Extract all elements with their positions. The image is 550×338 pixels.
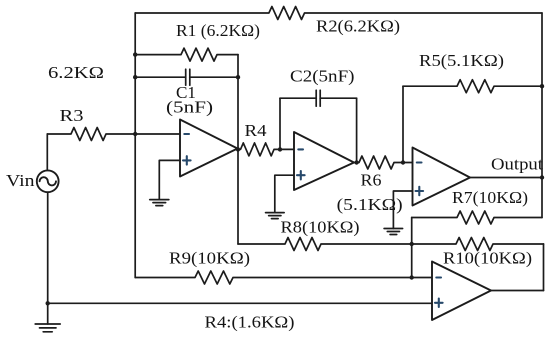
node U4 minus [410, 275, 414, 279]
node output row [540, 175, 544, 179]
resistor R1 [135, 48, 238, 61]
wire U4 output [491, 290, 544, 292]
node C1 left [133, 75, 137, 79]
wire U3 output [470, 177, 542, 179]
svg-text:R7(10KΩ): R7(10KΩ) [452, 188, 528, 207]
op-amp U1 [180, 120, 238, 177]
svg-text:R4: R4 [245, 121, 268, 140]
op-amp U2 [294, 132, 354, 190]
source Vin [37, 170, 59, 192]
wire U2 plus input [275, 175, 294, 212]
wire C2 right lead [320, 97, 356, 99]
wire R10 right vertical [543, 244, 545, 291]
svg-text:R1 (6.2KΩ): R1 (6.2KΩ) [176, 21, 260, 40]
svg-text:R4:(1.6KΩ): R4:(1.6KΩ) [205, 313, 295, 332]
node R5/output net [540, 84, 544, 88]
node R8/R10 [410, 242, 414, 246]
node C2 left/R4 [278, 147, 282, 151]
resistor R3 [47, 128, 180, 141]
svg-text:(5nF): (5nF) [166, 98, 213, 117]
node R6/R5 [401, 160, 405, 164]
wire bottom rail (ground net) [48, 302, 432, 304]
ground (U2 +) [266, 213, 285, 219]
op-amp U4 [432, 262, 491, 321]
svg-text:R3: R3 [60, 106, 84, 125]
wire Vin top [46, 134, 48, 170]
resistor R5 [403, 80, 542, 93]
svg-text:Output: Output [491, 155, 543, 174]
wire C2 left lead [280, 97, 316, 99]
svg-text:C2(5nF): C2(5nF) [290, 67, 355, 86]
svg-text:R2(6.2KΩ): R2(6.2KΩ) [316, 17, 400, 36]
wire R7 left vertical [411, 218, 413, 278]
resistor R4 [238, 143, 295, 156]
svg-text:R5(5.1KΩ): R5(5.1KΩ) [419, 51, 504, 70]
svg-text:R10(10KΩ): R10(10KΩ) [443, 249, 532, 268]
svg-text:R6: R6 [361, 171, 382, 190]
wire C2 right vertical [356, 98, 358, 162]
ground (Vin) [35, 324, 60, 332]
capacitor C1 [186, 69, 190, 85]
resistor R6 [354, 156, 413, 169]
node R1 left [133, 52, 137, 56]
wire U3 plus input [393, 191, 412, 229]
node C1 right [236, 75, 240, 79]
wire R5 left vertical [402, 86, 404, 162]
svg-text:6.2KΩ: 6.2KΩ [48, 63, 104, 82]
resistor R9 [135, 271, 432, 284]
wire left vertical bus [134, 13, 136, 278]
node U2 output [354, 160, 358, 164]
node U1 output [236, 147, 240, 151]
capacitor C2 [316, 90, 320, 106]
ground (U1 +) [150, 200, 169, 206]
wire C1 right lead [190, 76, 238, 78]
wire ground stem bottom-left [47, 303, 49, 324]
wire Vin bottom [47, 193, 49, 304]
resistor R2 [135, 7, 542, 20]
resistor R8 [238, 238, 412, 251]
node Vin/ground junction [46, 301, 50, 305]
wire U1 plus input [159, 160, 180, 199]
resistor R7 [412, 211, 542, 224]
wire right vertical (output net) [541, 13, 543, 218]
svg-text:Vin: Vin [6, 171, 35, 190]
node R3/minus bus [133, 132, 137, 136]
wire R1/C1 right vertical down to R8 [237, 55, 239, 244]
svg-text:R9(10KΩ): R9(10KΩ) [169, 249, 250, 268]
op-amp U3 [413, 148, 471, 206]
svg-text:(5.1KΩ): (5.1KΩ) [337, 195, 403, 214]
ground (U3 +) [384, 229, 403, 235]
wire C1 left lead [135, 76, 186, 78]
svg-text:R8(10KΩ): R8(10KΩ) [281, 218, 360, 237]
resistor R10 [412, 238, 544, 251]
wire C2 left vertical [279, 98, 281, 149]
